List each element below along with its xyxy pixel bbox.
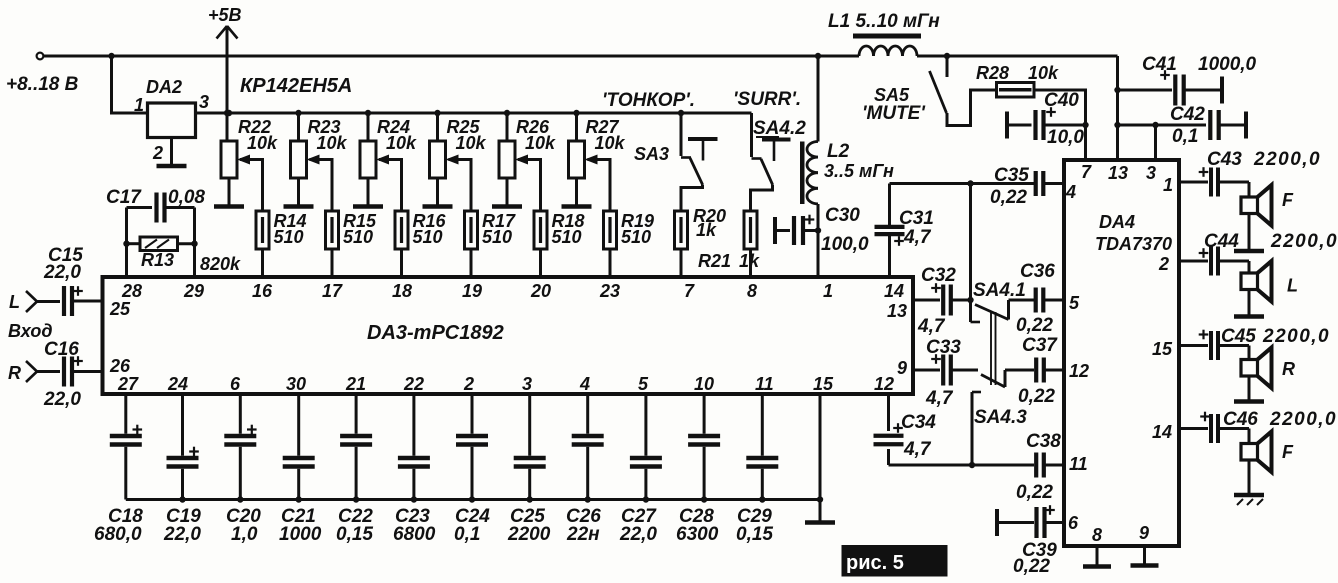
svg-text:510: 510 <box>343 227 373 247</box>
capacitor C24 0,1 <box>454 394 490 545</box>
potentiometer R26 10k <box>499 117 556 178</box>
pin 17 DA3 top <box>322 281 343 301</box>
svg-text:C34: C34 <box>901 412 936 433</box>
node C40-pin7 <box>1082 122 1088 128</box>
wiper of R24 <box>376 155 402 212</box>
pin 7 DA4 <box>1081 162 1092 182</box>
svg-text:C45: C45 <box>1221 326 1256 347</box>
svg-text:R28: R28 <box>976 63 1009 83</box>
pin 30 DA3 bottom <box>286 374 306 394</box>
wire speaker R to ground <box>1248 376 1251 402</box>
svg-text:4: 4 <box>579 374 590 394</box>
speaker F <box>1241 429 1294 473</box>
capacitor C21 1000 <box>279 394 322 545</box>
input L <box>9 291 37 312</box>
svg-text:10k: 10k <box>595 133 626 153</box>
pin 28 DA3 top <box>121 281 142 301</box>
node +5V bus <box>224 110 230 116</box>
svg-text:510: 510 <box>552 227 582 247</box>
svg-text:15: 15 <box>813 374 834 394</box>
svg-text:2200: 2200 <box>507 524 551 545</box>
wire +5V vertical <box>226 26 229 141</box>
svg-text:3..5 мГн: 3..5 мГн <box>824 161 894 181</box>
capacitor C44 2200,0 <box>1179 231 1338 276</box>
svg-text:5: 5 <box>1069 293 1080 313</box>
svg-text:2: 2 <box>463 374 474 394</box>
ground main <box>805 520 835 525</box>
svg-text:22н: 22н <box>566 524 600 545</box>
svg-text:6: 6 <box>230 374 241 394</box>
node rail-C20 <box>237 496 243 502</box>
wire bus to R23 <box>297 113 300 141</box>
node C42 branch <box>1114 122 1120 128</box>
svg-text:C32: C32 <box>921 265 956 286</box>
svg-text:23: 23 <box>599 281 620 301</box>
wire DA3 pin 15 down <box>819 394 822 521</box>
svg-text:5: 5 <box>638 374 649 394</box>
pin 26 DA3 <box>109 356 131 376</box>
pin 8 DA4 <box>1092 525 1102 545</box>
pin 18 DA3 top <box>392 281 412 301</box>
node bus-SA3 <box>678 110 684 116</box>
capacitor C23 6800 <box>393 394 436 545</box>
svg-text:DA3-mPC1892: DA3-mPC1892 <box>367 322 504 344</box>
svg-text:19: 19 <box>462 281 482 301</box>
svg-text:7: 7 <box>1081 162 1092 182</box>
svg-text:18: 18 <box>392 281 412 301</box>
svg-text:4,7: 4,7 <box>917 316 946 337</box>
capacitor C26 22н <box>566 394 604 545</box>
node rail-SA5 <box>944 53 950 59</box>
svg-text:3: 3 <box>199 92 209 112</box>
svg-text:'MUTE': 'MUTE' <box>862 103 926 124</box>
svg-text:20: 20 <box>530 281 551 301</box>
switch SA4.1 <box>973 280 1026 320</box>
pin 9 DA4 <box>1139 523 1149 543</box>
svg-text:4,7: 4,7 <box>925 388 954 409</box>
svg-text:L2: L2 <box>827 141 850 162</box>
input terminal +8..18 V <box>6 53 79 95</box>
pin 4 DA4 <box>1065 182 1076 202</box>
wire DA3 pin 29 up <box>193 208 196 278</box>
svg-text:4: 4 <box>1065 182 1076 202</box>
pin 25 DA3 <box>109 299 131 319</box>
capacitor C22 0,15 <box>336 394 373 545</box>
svg-text:17: 17 <box>322 281 343 301</box>
svg-text:C30: C30 <box>825 205 860 226</box>
pin 13 DA3 <box>887 301 907 321</box>
node R13 left <box>123 241 129 247</box>
capacitor C18 680,0 <box>94 394 143 545</box>
capacitor C42 0,1 <box>1118 104 1247 147</box>
svg-text:C44: C44 <box>1204 231 1239 252</box>
svg-text:510: 510 <box>274 227 304 247</box>
node SA4.3-C38 <box>969 462 975 468</box>
wire R24 to ground <box>367 178 370 205</box>
node rail-C29 <box>759 496 765 502</box>
svg-text:+5В: +5В <box>208 5 242 25</box>
pin 6 DA3 bottom <box>230 374 241 394</box>
svg-text:SA4.3: SA4.3 <box>974 407 1027 428</box>
capacitor C15 22,0 <box>37 245 103 316</box>
pin 9 DA3 <box>897 358 907 378</box>
pin 2 DA2 <box>152 143 163 163</box>
capacitor C27 22,0 <box>619 394 662 545</box>
capacitor C31 4,7 <box>875 184 934 278</box>
svg-text:C31: C31 <box>899 208 934 229</box>
wire R27 to ground <box>575 178 578 205</box>
wiper of R27 <box>585 155 611 212</box>
svg-text:рис. 5: рис. 5 <box>846 552 904 574</box>
svg-text:C36: C36 <box>1020 261 1055 282</box>
svg-text:510: 510 <box>413 227 443 247</box>
pin 14 DA4 <box>1152 422 1172 442</box>
svg-text:10k: 10k <box>1028 63 1059 83</box>
svg-text:9: 9 <box>1139 523 1149 543</box>
svg-text:0,22: 0,22 <box>990 187 1027 208</box>
speaker R <box>1241 346 1295 389</box>
node bus-R26 <box>504 110 510 116</box>
wire DA3 pin 28 up <box>125 208 128 278</box>
svg-text:Вход: Вход <box>8 321 52 341</box>
switch SA5 MUTE <box>862 56 997 126</box>
capacitor C35 0,22 <box>990 165 1064 208</box>
wire speaker F to ground <box>1248 460 1251 495</box>
svg-text:C41: C41 <box>1142 54 1177 75</box>
resistor R17 510 <box>465 211 517 249</box>
capacitor C16 22,0 <box>37 339 103 410</box>
node rail-C25 <box>527 496 533 502</box>
capacitor C28 6300 <box>676 394 720 545</box>
wire C42 to DA4 pin 3 <box>1154 125 1157 160</box>
svg-text:C35: C35 <box>994 165 1029 186</box>
node C35 branch <box>967 180 973 186</box>
svg-text:30: 30 <box>286 374 306 394</box>
svg-text:DA4: DA4 <box>1099 212 1135 232</box>
node rail-C28 <box>701 496 707 502</box>
svg-text:8: 8 <box>1092 525 1102 545</box>
amplifier DA4 TDA7370 <box>1064 160 1179 546</box>
ground R23 <box>284 204 314 209</box>
pin 12 DA3 bottom <box>874 374 894 394</box>
svg-text:1k: 1k <box>696 220 717 240</box>
switch SA3 <box>634 113 703 211</box>
svg-text:10k: 10k <box>247 133 278 153</box>
capacitor C30 100,0 <box>775 205 869 255</box>
svg-text:510: 510 <box>482 227 512 247</box>
svg-text:+8..18 В: +8..18 В <box>6 74 79 95</box>
svg-text:C46: C46 <box>1223 409 1258 430</box>
ground R25 <box>423 204 453 209</box>
node C30-L2 <box>815 227 821 233</box>
svg-text:C17: C17 <box>106 187 142 208</box>
svg-text:22,0: 22,0 <box>619 524 657 545</box>
capacitor C34 4,7 <box>874 394 937 465</box>
pin 24 DA3 bottom <box>167 374 188 394</box>
wire R26 to ground <box>506 178 509 205</box>
regulator DA2 KR142EN5A <box>146 75 352 138</box>
svg-text:11: 11 <box>1069 454 1088 474</box>
svg-text:'SURR'.: 'SURR'. <box>733 89 801 110</box>
wire R22 to ground <box>228 178 231 205</box>
svg-text:R: R <box>1282 359 1295 379</box>
node rail-C22 <box>353 496 359 502</box>
wire C34 to C38 <box>889 464 1035 467</box>
svg-text:13: 13 <box>887 301 907 321</box>
inductor L1 5..10 mH <box>828 11 940 56</box>
node rail-C24 <box>469 496 475 502</box>
svg-text:4,7: 4,7 <box>903 439 932 460</box>
pin 11 DA3 bottom <box>755 374 774 394</box>
svg-text:2: 2 <box>152 143 163 163</box>
wire R15 to DA3 <box>331 249 334 277</box>
svg-text:R: R <box>8 363 21 383</box>
wire ground rail <box>126 498 820 501</box>
pin 1 DA2 <box>134 95 144 115</box>
wire DA4 pin 9 ground <box>1143 546 1146 564</box>
svg-text:'ТОНКОР'.: 'ТОНКОР'. <box>602 90 695 111</box>
resistor R18 510 <box>534 211 585 249</box>
svg-text:21: 21 <box>345 374 366 394</box>
svg-text:SA4.1: SA4.1 <box>973 280 1026 301</box>
capacitor C32 4,7 <box>913 265 971 337</box>
svg-text:0,15: 0,15 <box>336 524 373 545</box>
capacitor C45 2200,0 <box>1179 326 1330 360</box>
wiper of R25 <box>446 155 472 212</box>
svg-text:C16: C16 <box>44 339 79 360</box>
wire R23 to ground <box>297 178 300 205</box>
pin 1 DA4 <box>1163 175 1173 195</box>
capacitor C17 0,08 <box>106 187 205 223</box>
svg-text:0,1: 0,1 <box>454 524 480 545</box>
potentiometer R24 10k <box>360 117 417 178</box>
svg-text:10k: 10k <box>317 133 348 153</box>
svg-text:2200,0: 2200,0 <box>1262 326 1330 347</box>
svg-text:1: 1 <box>1163 175 1173 195</box>
resistor R20 1k <box>675 206 727 249</box>
capacitor C29 0,15 <box>736 394 778 545</box>
node SA4.1 pivot <box>967 297 973 303</box>
svg-text:22,0: 22,0 <box>163 524 201 545</box>
pin 11 DA4 <box>1069 454 1088 474</box>
svg-text:0,22: 0,22 <box>1018 386 1055 407</box>
capacitor C20 1,0 <box>224 394 261 545</box>
svg-text:R21: R21 <box>698 251 731 271</box>
svg-text:22: 22 <box>403 374 424 394</box>
capacitor C19 22,0 <box>163 394 201 545</box>
ground R26 <box>492 204 522 209</box>
svg-text:29: 29 <box>183 281 204 301</box>
svg-text:SA3: SA3 <box>634 144 669 164</box>
wire top supply rail <box>43 55 1118 58</box>
wire C31 to C35 and pin 4 <box>890 182 1035 185</box>
svg-text:12: 12 <box>874 374 894 394</box>
svg-text:КР142ЕН5А: КР142ЕН5А <box>240 75 352 97</box>
svg-text:10: 10 <box>694 374 714 394</box>
svg-text:16: 16 <box>252 281 273 301</box>
wire speaker L to ground <box>1248 290 1251 317</box>
svg-text:3: 3 <box>1146 163 1156 183</box>
svg-text:F: F <box>1282 190 1294 210</box>
svg-text:10,0: 10,0 <box>1047 127 1084 148</box>
svg-text:1: 1 <box>823 281 833 301</box>
svg-text:C33: C33 <box>926 337 961 358</box>
node rail-pin15 <box>817 496 823 502</box>
node rail-L2 <box>815 53 821 59</box>
svg-text:4,7: 4,7 <box>903 227 932 248</box>
resistor R14 510 <box>256 211 307 249</box>
resistor R16 510 <box>395 211 447 249</box>
node bus-R24 <box>365 110 371 116</box>
pin 3 DA3 bottom <box>522 374 532 394</box>
capacitor C33 4,7 <box>913 337 978 409</box>
ground speaker F hatched <box>1234 495 1264 505</box>
label TONKOR <box>602 90 695 111</box>
svg-text:0,1: 0,1 <box>1172 126 1198 147</box>
capacitor C36 0,22 <box>1009 261 1065 336</box>
label SURR <box>733 89 801 110</box>
resistor R15 510 <box>326 211 378 249</box>
ground DA2 <box>157 164 187 169</box>
svg-text:6800: 6800 <box>393 524 436 545</box>
pin 15 DA3 bottom <box>813 374 834 394</box>
svg-text:0,22: 0,22 <box>1016 315 1053 336</box>
svg-text:27: 27 <box>117 374 139 394</box>
wire DA2 pin 2 to ground <box>170 138 173 167</box>
label Vhod <box>8 321 52 341</box>
svg-text:TDA7370: TDA7370 <box>1095 234 1172 254</box>
node bus-R23 <box>295 110 301 116</box>
pin 12 DA4 <box>1069 361 1089 381</box>
wire bus to R26 <box>506 113 509 141</box>
pin 10 DA3 bottom <box>694 374 714 394</box>
potentiometer R23 10k <box>291 117 348 178</box>
svg-text:510: 510 <box>621 227 651 247</box>
wire L2 to DA3 pin 1 <box>817 204 820 277</box>
node bus-R27 <box>573 110 579 116</box>
node bus-R25 <box>434 110 440 116</box>
node rail-C27 <box>643 496 649 502</box>
pin 4 DA3 bottom <box>579 374 590 394</box>
wire C35-node to SA4.1 <box>971 184 981 323</box>
pin 2 DA3 bottom <box>463 374 474 394</box>
resistor R19 510 <box>604 211 655 249</box>
pin 27 DA3 bottom <box>117 374 139 394</box>
capacitor C38 0,22 <box>1016 431 1064 503</box>
node bus-R22 <box>226 110 232 116</box>
svg-text:10k: 10k <box>386 133 417 153</box>
capacitor C25 2200 <box>507 394 551 545</box>
svg-text:15: 15 <box>1152 339 1173 359</box>
svg-text:22,0: 22,0 <box>43 262 81 283</box>
wire R18 to DA3 <box>539 249 542 277</box>
svg-text:SA5: SA5 <box>874 85 910 105</box>
svg-text:28: 28 <box>121 281 142 301</box>
svg-text:C37: C37 <box>1022 335 1058 356</box>
pin 3 DA2 <box>199 92 209 112</box>
node rail-C21 <box>296 496 302 502</box>
ground R22 <box>214 204 244 209</box>
svg-text:R13: R13 <box>141 250 174 270</box>
svg-text:C40: C40 <box>1044 90 1079 111</box>
svg-text:C42: C42 <box>1170 104 1205 125</box>
svg-text:2200,0: 2200,0 <box>1253 149 1321 170</box>
svg-text:2: 2 <box>1158 254 1169 274</box>
wire R21 to DA3 pin 8 <box>749 249 752 277</box>
wire DA4 pin 8 ground <box>1096 546 1099 565</box>
contact SA3 fixed <box>688 139 718 161</box>
potentiometer R25 10k <box>430 117 487 178</box>
switch SA4.3 <box>974 370 1027 428</box>
svg-text:6300: 6300 <box>676 524 719 545</box>
svg-text:0,15: 0,15 <box>736 524 773 545</box>
speaker F <box>1241 182 1294 226</box>
pin 6 DA4 <box>1068 513 1079 533</box>
ground speaker F <box>1234 249 1264 254</box>
node rail-C26 <box>585 496 591 502</box>
svg-text:L: L <box>1287 276 1298 296</box>
ground speaker L <box>1234 314 1264 319</box>
wire bus to R24 <box>367 113 370 141</box>
svg-text:26: 26 <box>109 356 131 376</box>
pin 2 DA4 <box>1158 254 1169 274</box>
svg-text:8: 8 <box>747 281 757 301</box>
node pin3 <box>1152 122 1158 128</box>
switch SA4.2 <box>751 113 807 211</box>
resistor R13 820k <box>127 237 242 274</box>
pin 13 DA4 <box>1108 163 1128 183</box>
svg-text:14: 14 <box>1152 422 1172 442</box>
svg-text:L: L <box>9 292 20 312</box>
pin 19 DA3 top <box>462 281 482 301</box>
svg-text:820k: 820k <box>200 254 241 274</box>
switch link SA4 <box>991 312 996 385</box>
svg-text:2200,0: 2200,0 <box>1270 231 1338 252</box>
svg-text:0,08: 0,08 <box>168 187 205 208</box>
pin 16 DA3 top <box>252 281 273 301</box>
resistor R28 10k <box>976 63 1059 97</box>
svg-text:7: 7 <box>684 281 695 301</box>
pin 29 DA3 top <box>183 281 204 301</box>
wire rail to DA2 pin 1 <box>112 56 148 113</box>
ground DA4 pin 8 <box>1083 564 1111 569</box>
svg-text:11: 11 <box>755 374 774 394</box>
capacitor C46 2200,0 <box>1179 409 1337 443</box>
svg-text:10k: 10k <box>456 133 487 153</box>
pin 15 DA4 <box>1152 339 1173 359</box>
ground R24 <box>353 204 383 209</box>
svg-text:1000: 1000 <box>279 524 322 545</box>
potentiometer R27 10k <box>569 117 626 178</box>
node rail-DA2 <box>108 53 114 59</box>
input R <box>8 361 37 383</box>
power +5V arrow <box>208 5 242 39</box>
svg-text:6: 6 <box>1068 513 1079 533</box>
figure label ris.5 <box>842 545 948 577</box>
svg-text:14: 14 <box>884 281 904 301</box>
wiper of R22 <box>237 155 263 212</box>
pin 20 DA3 top <box>530 281 551 301</box>
svg-text:13: 13 <box>1108 163 1128 183</box>
pin 5 DA4 <box>1069 293 1080 313</box>
capacitor C37 0,22 <box>1005 335 1064 407</box>
svg-text:0,22: 0,22 <box>1013 556 1050 577</box>
wire R25 to ground <box>436 178 439 205</box>
pin 1 DA3 top <box>823 281 833 301</box>
contact SA4.2 fixed <box>762 140 791 162</box>
pin 3 DA4 <box>1146 163 1156 183</box>
wiper of R23 <box>307 155 333 212</box>
